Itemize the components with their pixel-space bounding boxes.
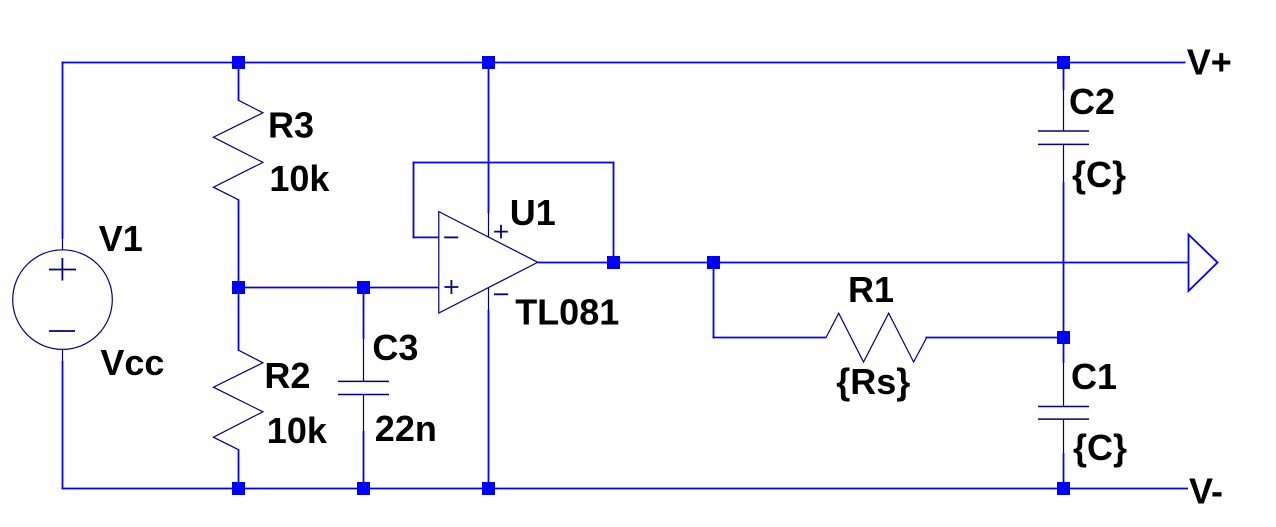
wire opamp V+ pin bbox=[488, 63, 490, 214]
wire C3 top lead bbox=[363, 288, 365, 340]
op-amp V- pin navy stub bbox=[488, 288, 490, 310]
resistor R2 zigzag bbox=[213, 350, 263, 450]
capacitor C3 symbol leads bbox=[363, 339, 365, 431]
wire C3 bottom lead bbox=[363, 431, 365, 489]
svg-text:{C}: {C} bbox=[1073, 427, 1127, 468]
svg-text:C1: C1 bbox=[1071, 356, 1117, 397]
voltage source V1 circle bbox=[13, 250, 113, 350]
svg-text:{C}: {C} bbox=[1072, 154, 1126, 195]
svg-text:R1: R1 bbox=[848, 269, 894, 310]
junction node top rail at C2 bbox=[1057, 56, 1070, 69]
junction node top rail at R3 bbox=[232, 56, 245, 69]
output port arrow bbox=[1189, 235, 1218, 292]
svg-text:Vcc: Vcc bbox=[100, 342, 164, 383]
wire R1 left lead bbox=[713, 337, 827, 339]
V1 top symbol lead bbox=[62, 238, 64, 251]
wire R2 bottom lead bbox=[238, 449, 240, 488]
op-amp V+ pin navy stub bbox=[488, 213, 490, 237]
wire R1 right lead bbox=[926, 337, 1064, 339]
capacitor C2 symbol leads bbox=[1063, 90, 1065, 182]
op-amp U1 triangle bbox=[439, 212, 538, 313]
wire C1 bottom lead bbox=[1063, 453, 1065, 489]
wire branch down from output node bbox=[713, 263, 715, 339]
junction node output to R1 branch bbox=[707, 256, 720, 269]
wire opamp V- pin bbox=[488, 310, 490, 489]
capacitor C1 plates bbox=[1038, 407, 1089, 420]
junction node top rail at opamp V+ bbox=[482, 56, 495, 69]
junction node bottom rail at R2 bbox=[232, 482, 245, 495]
wire C2 bottom lead down to R1/C1 node bbox=[1063, 182, 1065, 338]
svg-text:V-: V- bbox=[1189, 471, 1223, 512]
wire C2 top lead bbox=[1063, 63, 1065, 91]
wire noninverting input row bbox=[238, 287, 439, 289]
wire inverting input stub bbox=[413, 236, 439, 238]
op-amp V+ power plus marker bbox=[494, 225, 508, 239]
svg-text:22n: 22n bbox=[375, 408, 437, 449]
wire output row bbox=[538, 262, 1189, 264]
op-amp noninverting input plus marker bbox=[444, 280, 458, 294]
wire R3 bottom lead bbox=[238, 199, 240, 287]
junction node bottom rail at C3 bbox=[357, 482, 370, 495]
svg-text:C3: C3 bbox=[372, 327, 418, 368]
svg-text:{Rs}: {Rs} bbox=[836, 361, 910, 402]
resistor R1 zigzag bbox=[826, 313, 927, 362]
V1 minus sign bbox=[49, 330, 75, 332]
V1 plus sign bbox=[49, 258, 76, 281]
svg-text:10k: 10k bbox=[267, 410, 328, 451]
wire bottom rail V- bbox=[62, 488, 1188, 490]
capacitor C1 symbol leads bbox=[1063, 363, 1065, 453]
wire left column lower (V1 to bottom rail) bbox=[62, 361, 64, 489]
op-amp V- power minus marker bbox=[494, 293, 508, 295]
wire feedback right vertical bbox=[613, 162, 615, 263]
wire feedback top horizontal bbox=[413, 162, 615, 164]
junction node opamp output feedback bbox=[607, 256, 620, 269]
svg-text:TL081: TL081 bbox=[515, 291, 619, 332]
svg-text:R2: R2 bbox=[264, 355, 310, 396]
wire R3 top lead bbox=[238, 63, 240, 101]
junction node bottom rail at C1 bbox=[1057, 482, 1070, 495]
svg-text:V1: V1 bbox=[99, 218, 143, 259]
svg-text:R3: R3 bbox=[268, 105, 314, 146]
wire feedback left vertical bbox=[413, 162, 415, 239]
junction node bottom rail at opamp V- bbox=[482, 482, 495, 495]
svg-text:10k: 10k bbox=[269, 158, 330, 199]
svg-text:U1: U1 bbox=[510, 192, 556, 233]
wire R2 top lead bbox=[238, 288, 240, 351]
wire left column upper (top rail to V1) bbox=[62, 62, 64, 239]
op-amp inverting input minus marker bbox=[444, 236, 458, 238]
svg-text:C2: C2 bbox=[1069, 81, 1115, 122]
svg-text:V+: V+ bbox=[1187, 42, 1232, 83]
junction node R1/C1/C2 bbox=[1057, 331, 1070, 344]
capacitor C3 plates bbox=[338, 381, 389, 394]
V1 bottom symbol lead bbox=[62, 349, 64, 362]
junction node R2/R3 divider bbox=[232, 281, 245, 294]
resistor R3 zigzag bbox=[213, 100, 263, 200]
capacitor C2 plates bbox=[1038, 131, 1089, 144]
wire C1 top lead bbox=[1063, 338, 1065, 364]
junction node C3 top bbox=[357, 281, 370, 294]
wire top rail V+ bbox=[62, 62, 1186, 64]
